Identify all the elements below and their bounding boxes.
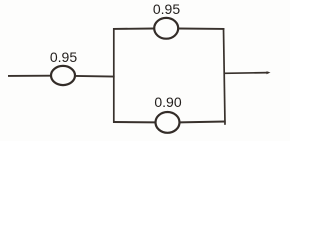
wire (bottom branch, right segment) xyxy=(180,121,226,124)
wire (parallel box right vertical) xyxy=(224,28,226,125)
wire (output) xyxy=(224,72,269,75)
wire xyxy=(75,75,115,78)
wire (top branch, right segment) xyxy=(178,28,224,30)
wire xyxy=(8,75,52,77)
wire tip xyxy=(267,71,271,74)
wire (parallel box left vertical) xyxy=(113,28,115,123)
wire (top branch, left segment) xyxy=(113,28,155,30)
svg-text:0.95: 0.95 xyxy=(153,1,180,17)
wire (bottom branch, left segment) xyxy=(113,121,156,123)
svg-text:0.90: 0.90 xyxy=(154,94,181,110)
svg-text:0.95: 0.95 xyxy=(50,49,77,65)
component 0.95 (top parallel block) xyxy=(154,18,178,39)
component 0.95 (series block) xyxy=(51,66,75,85)
component 0.90 (bottom parallel block) xyxy=(156,112,180,133)
